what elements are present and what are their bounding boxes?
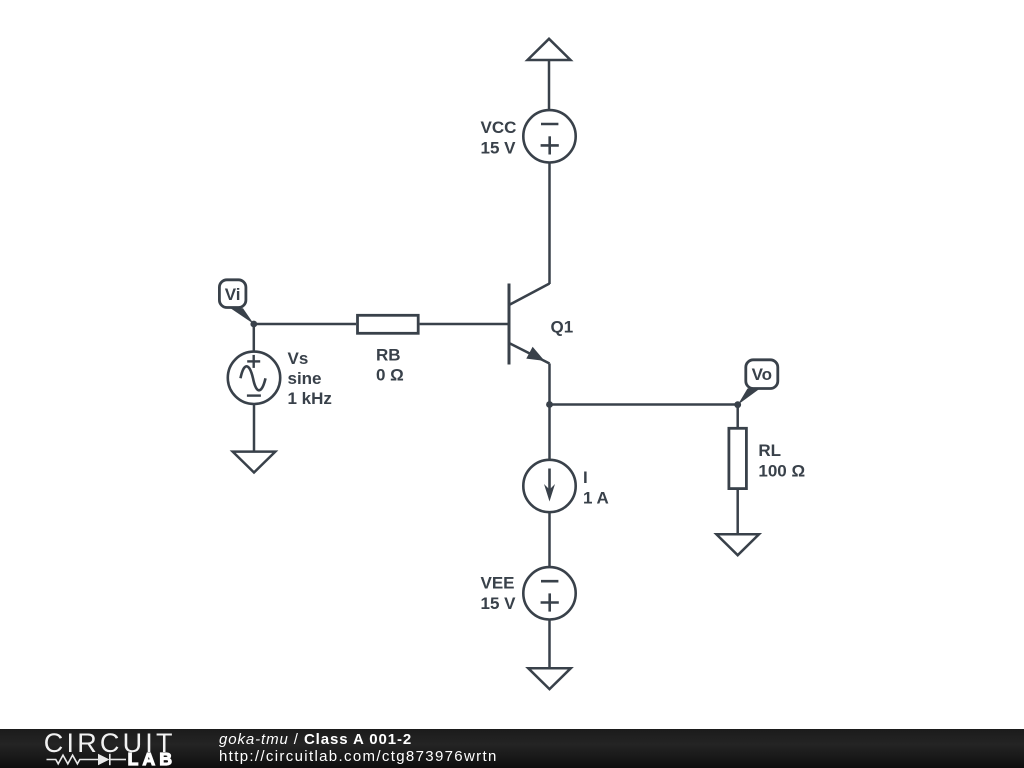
- current source I 1 A: [523, 460, 575, 512]
- ground (below VEE): [528, 668, 571, 689]
- net label Vi (flag): [219, 280, 253, 324]
- svg-text:sine: sine: [288, 369, 322, 388]
- svg-text:1 A: 1 A: [583, 488, 609, 507]
- voltage source VCC 15 V: [523, 110, 575, 162]
- svg-text:VCC: VCC: [481, 118, 517, 137]
- wire: [548, 364, 551, 405]
- net label Vo (flag): [738, 360, 778, 405]
- svg-text:Vo: Vo: [752, 365, 772, 384]
- wire: [548, 619, 551, 668]
- resistor RB: [358, 315, 419, 333]
- wire: [548, 405, 551, 461]
- wire: [736, 405, 739, 428]
- resistor RL: [729, 428, 747, 488]
- label I 1 A: [583, 468, 609, 507]
- node Vo (junction dot): [734, 401, 741, 408]
- svg-text:1 kHz: 1 kHz: [288, 389, 332, 408]
- svg-text:100 Ω: 100 Ω: [758, 461, 805, 480]
- svg-text:Q1: Q1: [551, 317, 574, 336]
- voltage source VEE 15 V: [523, 567, 575, 619]
- power flag VCC (supply triangle): [528, 39, 571, 60]
- wire: [548, 162, 551, 284]
- label Vs sine 1 kHz: [288, 349, 332, 408]
- svg-text:VEE: VEE: [481, 574, 515, 593]
- wire: [548, 60, 551, 111]
- wire: [420, 323, 509, 326]
- voltage source Vs (sine 1 kHz): [228, 352, 280, 404]
- node emitter junction: [546, 401, 553, 408]
- transistor Q1 (NPN): [509, 284, 550, 365]
- label VEE 15 V: [481, 574, 517, 614]
- label VCC 15 V: [481, 118, 517, 157]
- svg-text:I: I: [583, 468, 588, 487]
- label RB 0 Ohm: [376, 345, 404, 384]
- wire: [550, 403, 738, 406]
- svg-text:RB: RB: [376, 345, 401, 364]
- label RL 100 Ohm: [758, 441, 805, 480]
- wire: [736, 489, 739, 534]
- wire: [548, 512, 551, 567]
- svg-text:RL: RL: [758, 441, 781, 460]
- svg-text:0 Ω: 0 Ω: [376, 366, 404, 385]
- svg-text:Vs: Vs: [288, 349, 309, 368]
- footer bar: [0, 729, 1024, 768]
- node Vi (junction dot): [250, 321, 257, 328]
- wire: [254, 323, 356, 326]
- footer text: [219, 732, 498, 765]
- wire: [253, 404, 256, 452]
- ground (below RL): [716, 534, 759, 555]
- wire: [253, 324, 256, 352]
- CircuitLab logo: [0, 729, 200, 768]
- svg-text:15 V: 15 V: [481, 138, 517, 157]
- svg-text:Vi: Vi: [225, 285, 241, 304]
- svg-text:15 V: 15 V: [481, 594, 517, 613]
- ground (below Vs): [233, 452, 276, 473]
- svg-text:LAB: LAB: [128, 749, 177, 768]
